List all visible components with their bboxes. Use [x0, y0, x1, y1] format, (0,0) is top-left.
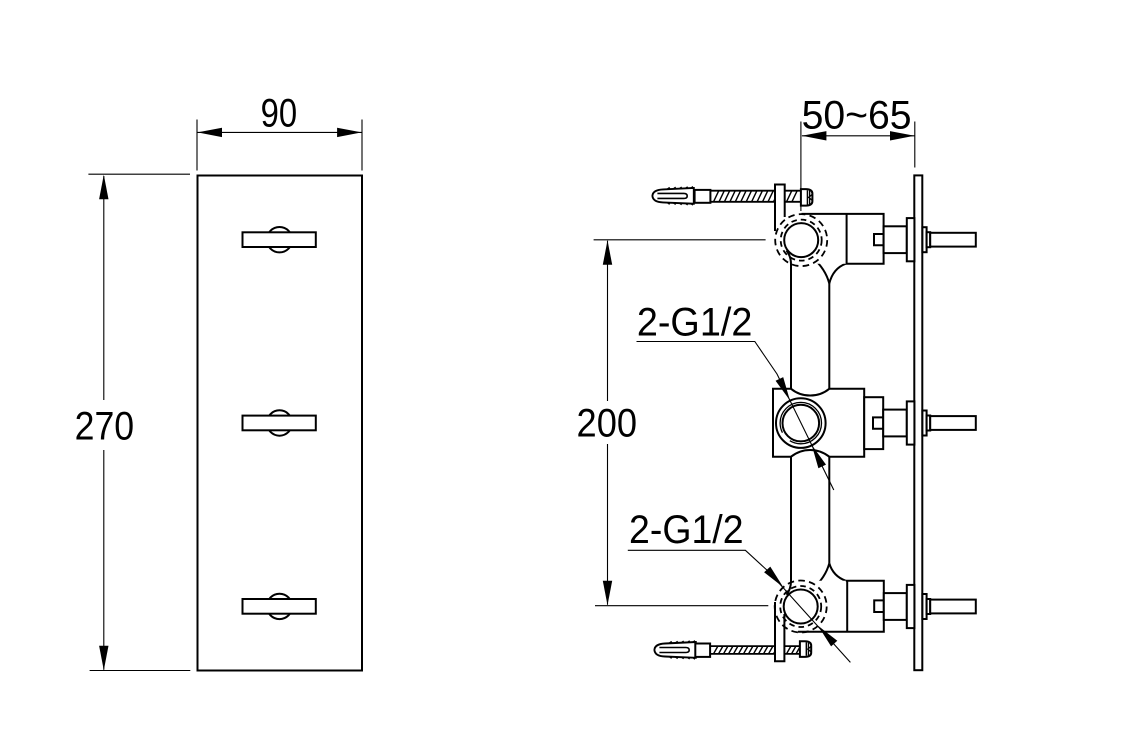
top valve flange [907, 218, 915, 261]
dim90 arrow left [198, 128, 223, 137]
top hub escutcheon circle (dashed) [775, 214, 827, 266]
bottom valve fillet outer curve [829, 563, 846, 581]
dim270 extension line bottom [90, 670, 191, 672]
dim270 arrow up [99, 175, 108, 200]
wall anchor (bottom) [654, 640, 696, 660]
middle valve flange [907, 401, 915, 444]
svg-text:90: 90 [261, 91, 298, 135]
dim270 arrow down [99, 646, 108, 671]
top valve collar [922, 227, 926, 252]
dim90 arrow right [337, 128, 362, 137]
dim200 extension line bottom (lower valve axis) [595, 605, 768, 607]
bottom hub bore circle [784, 590, 818, 624]
wall mounting plate (long vertical strap) [914, 175, 922, 670]
dim200 dimension line lower segment [607, 444, 609, 605]
svg-text:2-G1/2: 2-G1/2 [629, 508, 744, 552]
screw head slot (bottom) [806, 642, 811, 655]
screw shaft lines (bottom) [710, 646, 800, 654]
middle valve pin step [927, 416, 931, 431]
middle port inner circle [783, 405, 820, 442]
svg-text:2-G1/2: 2-G1/2 [637, 301, 753, 345]
slot hole 1 rectangle [243, 232, 316, 247]
top valve fillet outer curve [829, 264, 846, 284]
label1 leader polyline [637, 342, 834, 491]
mounting plate outline [198, 176, 363, 671]
screw collar (top) [695, 190, 711, 203]
top hub thread circle (dashed) [781, 220, 822, 261]
riser tube right line lower (middle body to bottom fillet cusp) [828, 457, 830, 564]
slot hole 2 rectangle [243, 416, 316, 431]
bottom hub escutcheon circle (dashed) [775, 581, 827, 633]
screw shaft lines (top) [710, 191, 801, 202]
wall anchor (top) [652, 186, 694, 206]
dim270 dimension line upper segment [103, 176, 105, 400]
screw head slot (top) [807, 190, 812, 204]
top valve body fill [801, 214, 884, 264]
dim50-65 extension line right (wall face) [914, 122, 916, 168]
dim50-65 dimension line [802, 135, 915, 137]
riser tube left line upper (top hub to middle body) [787, 251, 792, 390]
middle valve socket notch [873, 417, 883, 428]
middle valve collar [922, 411, 926, 436]
middle valve end block [864, 397, 883, 449]
bottom valve body fill [812, 581, 884, 632]
top valve body divider line [846, 214, 848, 264]
screw head (bottom) [800, 641, 811, 657]
label2 arrow upper [764, 567, 783, 588]
svg-text:200: 200 [577, 402, 638, 446]
screw thread marks (bottom) [714, 646, 801, 654]
dim50-65 arrow right [890, 131, 915, 140]
riser tube right line upper (top fillet cusp to middle body) [828, 284, 830, 390]
dim270 dimension line lower segment [103, 450, 105, 670]
dim200 arrow up [603, 240, 612, 264]
dim200 arrow down [603, 581, 612, 606]
slot hole 2 circle [267, 410, 292, 435]
middle valve body outline with scallops [773, 389, 864, 457]
slot hole 3 rectangle [243, 599, 316, 614]
screw head (top) [801, 189, 813, 206]
bracket ear (top) outline [775, 185, 785, 232]
middle port thread arc [780, 402, 821, 443]
bottom valve body outline [798, 581, 884, 632]
label2 arrow lower [818, 626, 837, 647]
bottom valve pin [930, 600, 976, 614]
bottom valve body divider line [846, 581, 848, 632]
50~65 left extension line (valve axis) [800, 122, 802, 212]
top valve pin step [927, 232, 931, 247]
svg-text:50~65: 50~65 [802, 94, 912, 138]
bottom valve collar [922, 594, 926, 619]
bottom valve neck [884, 593, 907, 620]
bracket ear (bottom) fill [775, 600, 784, 661]
dim200 dimension line upper segment [607, 241, 609, 401]
slot hole 1 circle [267, 227, 292, 252]
middle port outer circle [776, 398, 826, 448]
bottom valve fillet inner curve [813, 563, 830, 589]
top valve body outline [802, 214, 884, 264]
middle valve body fill [773, 389, 864, 457]
label1 arrow upper [776, 377, 790, 400]
bracket ear (bottom) outline [775, 602, 784, 661]
riser tube left line lower (middle body to bottom hub) [787, 457, 792, 595]
top valve socket notch [874, 234, 884, 245]
dim270 extension line top [88, 173, 190, 175]
top valve pin [930, 233, 976, 247]
dim90 extension line right [361, 120, 363, 171]
bottom hub thread circle (dashed) [780, 586, 821, 627]
screw collar (bottom) [695, 644, 710, 657]
top hub bore circle [784, 223, 818, 257]
middle valve neck [883, 410, 907, 437]
top valve neck [884, 226, 907, 253]
slot hole 3 circle [267, 594, 292, 619]
bottom valve flange [907, 585, 915, 628]
bottom valve pin step [927, 599, 931, 614]
svg-text:270: 270 [75, 405, 135, 449]
dim50-65 arrow left [802, 131, 827, 140]
screw thread marks (top) [714, 191, 798, 202]
dim90 dimension line [198, 131, 362, 133]
middle valve pin [930, 416, 976, 430]
top valve fillet inner curve [813, 258, 830, 284]
label2 leader polyline [628, 550, 851, 662]
dim90 extension line left [196, 120, 198, 171]
dim200 extension line top (upper valve axis) [594, 239, 766, 241]
label1 arrow lower [812, 445, 826, 468]
bottom valve socket notch [874, 600, 884, 612]
bracket ear (top) fill [775, 185, 785, 228]
